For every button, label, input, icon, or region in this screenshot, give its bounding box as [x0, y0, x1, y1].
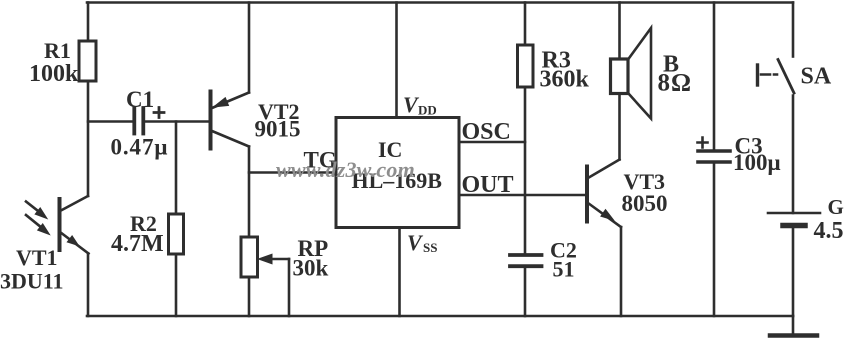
wire R3 top stem	[524, 3, 527, 46]
svg-text:V: V	[407, 230, 424, 255]
wire VT2 collector down	[248, 147, 251, 238]
svg-text:4.5: 4.5	[814, 218, 844, 244]
battery G	[768, 213, 820, 316]
phototransistor VT1	[26, 196, 89, 254]
svg-text:DD: DD	[418, 103, 437, 118]
resistor R2	[169, 214, 184, 254]
svg-text:R1: R1	[44, 38, 71, 63]
capacitor C2	[510, 255, 542, 316]
svg-text:9015: 9015	[255, 117, 301, 142]
svg-text:OUT: OUT	[462, 172, 514, 198]
svg-text:3DU11: 3DU11	[0, 269, 64, 294]
resistor R1	[79, 41, 96, 81]
ground	[770, 316, 817, 336]
wire TG	[249, 171, 336, 174]
switch SA	[758, 3, 795, 214]
svg-text:51: 51	[553, 257, 575, 282]
svg-text:VT1: VT1	[16, 245, 58, 270]
speaker B	[611, 3, 652, 119]
svg-text:100k: 100k	[29, 61, 79, 87]
svg-text:G: G	[828, 195, 844, 219]
capacitor C1	[88, 108, 209, 134]
potentiometer RP	[241, 237, 289, 316]
svg-text:8050: 8050	[622, 191, 668, 216]
wire VT3 emitter down	[620, 227, 623, 316]
capacitor C3	[698, 3, 731, 317]
wire VDD pin	[395, 3, 398, 118]
svg-text:30k: 30k	[293, 256, 329, 281]
wire top bus	[87, 1, 793, 4]
svg-text:www.dz3w.com: www.dz3w.com	[276, 157, 415, 182]
wire left bus upper	[87, 3, 90, 42]
wire VT2 emitter to top	[248, 3, 251, 93]
wire R2 bottom	[175, 254, 178, 316]
svg-text:360k: 360k	[540, 67, 590, 93]
svg-text:8Ω: 8Ω	[658, 70, 693, 97]
svg-text:C1: C1	[126, 87, 154, 112]
svg-text:SA: SA	[801, 64, 832, 90]
wire R2 stem	[175, 122, 178, 215]
wire R3 bottom stem	[524, 87, 527, 254]
wire VSS pin	[398, 228, 401, 317]
svg-text:4.7M: 4.7M	[111, 231, 164, 257]
wire left bus middle	[87, 81, 90, 196]
wire left bus lower	[87, 254, 90, 317]
wire bottom bus	[87, 315, 793, 318]
svg-text:0.47μ: 0.47μ	[111, 135, 169, 160]
svg-text:OSC: OSC	[462, 119, 511, 145]
wire OSC	[459, 141, 525, 144]
resistor R3	[518, 45, 534, 87]
transistor VT2	[211, 92, 250, 149]
svg-text:100μ: 100μ	[733, 150, 781, 175]
IC U1 box	[336, 118, 459, 228]
wire OUT	[459, 194, 586, 197]
wire VT3 collector up	[618, 94, 621, 160]
transistor VT3	[587, 160, 621, 228]
svg-text:SS: SS	[423, 240, 437, 255]
